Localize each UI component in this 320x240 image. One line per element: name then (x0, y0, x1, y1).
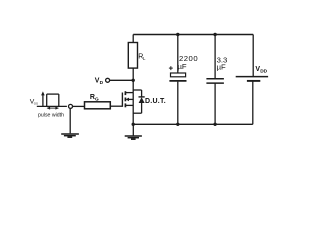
junction: bottom rail dot C2 (213, 123, 216, 126)
label VDD (255, 66, 267, 75)
junction: source node dot (132, 123, 135, 126)
wire: input node to RG (73, 105, 85, 107)
capacitor C1 bottom lead (177, 82, 179, 125)
wire: source node to ground (132, 124, 134, 135)
wire: VD probe wire (110, 79, 134, 81)
transistor Q1 gate bar (121, 93, 123, 107)
diode D1 triangle (139, 97, 145, 103)
diode D1 cathode lead (141, 90, 143, 97)
transistor Q1 channel segment source (124, 103, 126, 107)
node: input terminal circle (69, 104, 73, 108)
transistor Q1 channel segment drain (124, 91, 126, 95)
ground symbol at input (61, 134, 79, 137)
wire: RL bottom to drain (132, 68, 134, 93)
label RL (138, 54, 146, 62)
source VGS pulse rising edge (46, 94, 48, 106)
wire: top supply rail (133, 34, 253, 36)
wire: rail to RL top (132, 35, 134, 43)
battery VDD short plate (247, 80, 260, 82)
svg-text:µF: µF (178, 62, 187, 71)
capacitor C1 2200uF top lead (177, 35, 179, 74)
node VD junction dot (132, 79, 135, 82)
junction: top rail dot C2 (213, 33, 216, 36)
source VGS up arrow (42, 94, 44, 106)
source VGS pulse baseline (37, 105, 67, 107)
pulse width dimension arrow (47, 107, 58, 109)
svg-text:µF: µF (217, 62, 226, 71)
label RG (90, 94, 99, 103)
svg-text:D: D (100, 80, 104, 86)
svg-text:pulse width: pulse width (38, 112, 64, 118)
transistor Q1 drain connection (125, 92, 133, 94)
diode D1 cathode bar (139, 96, 145, 98)
junction: bottom rail dot C1 (176, 123, 179, 126)
wire: bottom return rail (133, 123, 253, 125)
diode D1 anode lead (141, 103, 143, 114)
source VGS pulse falling edge (58, 94, 60, 106)
capacitor C1 positive plate box (171, 73, 186, 77)
battery VDD negative lead (252, 81, 254, 124)
source VGS pulse top (47, 93, 59, 95)
capacitor C2 top plate (206, 78, 224, 80)
junction: top rail dot C1 (176, 33, 179, 36)
wire: drain-source vertical line (132, 93, 134, 125)
ground symbol at source (125, 136, 142, 139)
label 2200 uF (178, 54, 199, 71)
resistor RG body (85, 102, 111, 109)
label VD (95, 78, 104, 87)
transistor Q1 channel segment body (124, 98, 126, 102)
wire: input node to ground (69, 108, 71, 133)
capacitor C1 plus sign (169, 66, 173, 70)
label VGS (30, 99, 38, 106)
battery VDD long plate (236, 76, 268, 78)
transistor Q1 body connection wire (129, 98, 134, 100)
capacitor C2 bottom plate (206, 82, 224, 84)
capacitor C2 bottom lead (214, 83, 216, 124)
svg-text:G: G (95, 96, 99, 102)
svg-text:DD: DD (260, 69, 267, 75)
transistor Q1 D.U.T. gate lead wire (110, 105, 122, 107)
node VD terminal circle (106, 78, 110, 82)
label 3.3 uF (217, 56, 228, 72)
svg-text:L: L (143, 56, 146, 61)
battery VDD positive lead (252, 35, 254, 77)
resistor RL body (128, 43, 137, 69)
diode D1 body diode top wire (133, 89, 141, 91)
capacitor C2 3.3uF top lead (214, 35, 216, 79)
transistor Q1 body arrow (126, 98, 130, 102)
transistor Q1 source connection (125, 104, 133, 106)
svg-text:GS: GS (34, 102, 38, 106)
capacitor C1 negative plate (169, 80, 186, 82)
diode D1 bottom wire (133, 112, 141, 114)
svg-text:D.U.T.: D.U.T. (145, 98, 166, 105)
